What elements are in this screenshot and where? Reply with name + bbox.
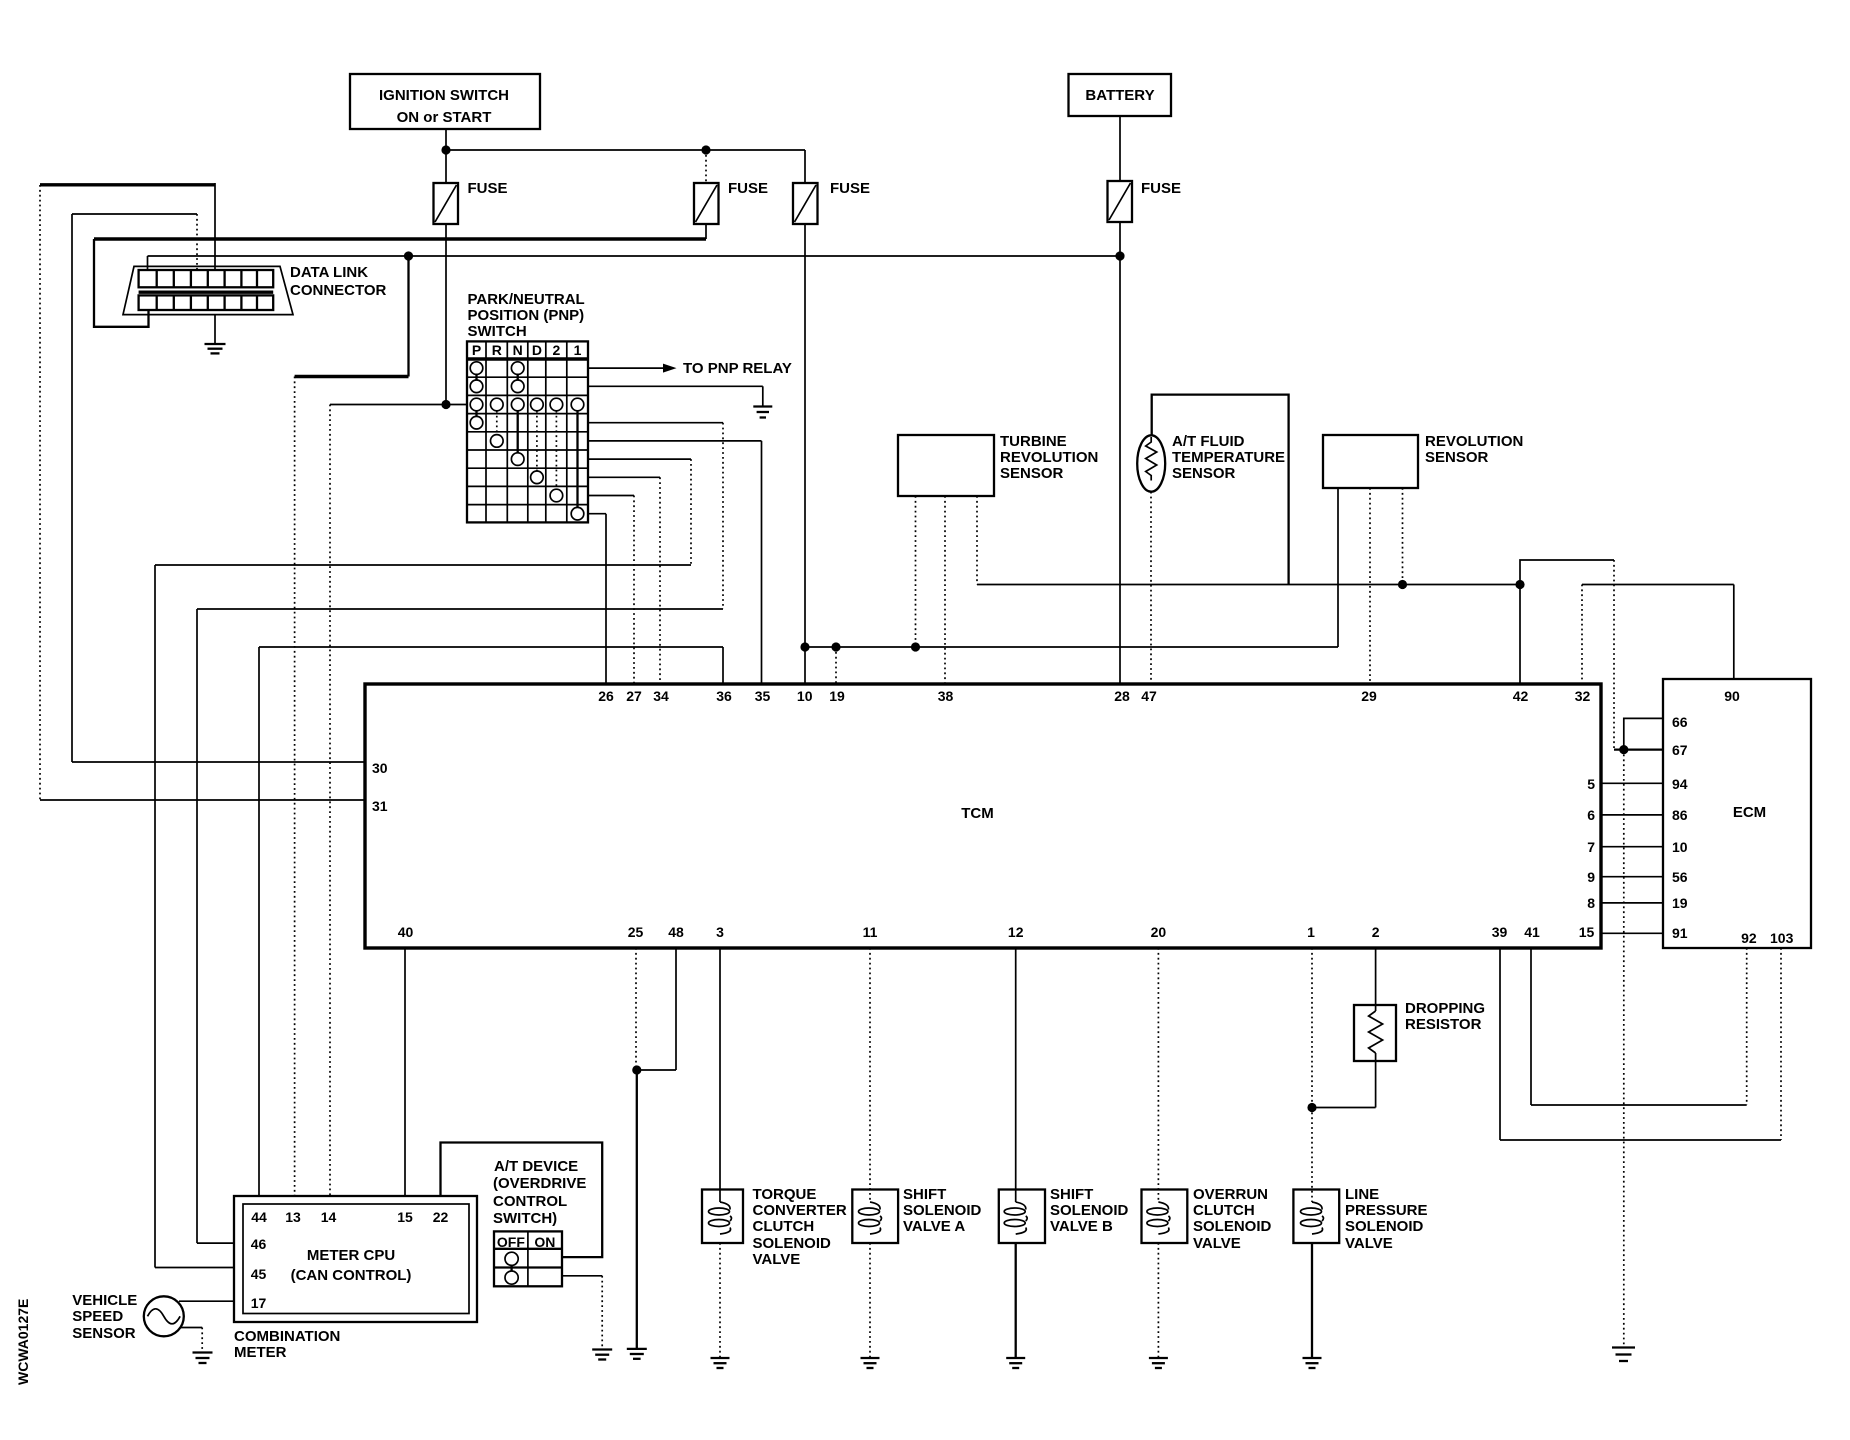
A/T device overdrive control switch label <box>493 1158 586 1227</box>
dropping resistor <box>1312 948 1485 1108</box>
wire line pressure solenoid to ground <box>1311 1243 1313 1358</box>
svg-text:13: 13 <box>285 1209 301 1225</box>
svg-text:DATA LINK: DATA LINK <box>290 264 368 281</box>
svg-text:WCWA0127E: WCWA0127E <box>15 1299 31 1385</box>
wire PNP row4 P to meter pin 46 <box>197 423 723 1243</box>
svg-text:CLUTCH: CLUTCH <box>1193 1202 1255 1219</box>
svg-text:SENSOR: SENSOR <box>1172 465 1236 482</box>
svg-text:25: 25 <box>628 924 644 940</box>
fuse F3 <box>793 180 870 224</box>
ECM pin labels <box>1672 688 1794 946</box>
svg-text:A/T FLUID: A/T FLUID <box>1172 433 1245 450</box>
svg-text:SOLENOID: SOLENOID <box>1193 1218 1272 1235</box>
svg-text:CLUTCH: CLUTCH <box>753 1218 815 1235</box>
turbine revolution sensor box <box>898 433 1098 496</box>
svg-text:9: 9 <box>1587 869 1595 885</box>
wire PNP row5 R to TCM pin 35 <box>588 441 762 684</box>
wire shift solenoid A to ground <box>869 1243 871 1358</box>
svg-text:VALVE: VALVE <box>1193 1235 1241 1252</box>
svg-text:3: 3 <box>716 924 724 940</box>
ignition switch box <box>350 74 540 129</box>
line pressure solenoid valve <box>1293 1186 1427 1252</box>
PNP contact circles and bars <box>470 362 584 520</box>
svg-text:67: 67 <box>1672 742 1688 758</box>
svg-text:56: 56 <box>1672 869 1688 885</box>
svg-text:REVOLUTION: REVOLUTION <box>1425 433 1523 450</box>
svg-text:FUSE: FUSE <box>728 180 768 197</box>
wire bus to fuse2 <box>705 150 707 183</box>
wire PNP row8 2 to TCM pin 27 <box>588 496 634 685</box>
svg-text:SOLENOID: SOLENOID <box>903 1202 982 1219</box>
wire fuse3 to TCM pin 10 <box>804 224 806 684</box>
wire TCM pin 48 joins pin 25 <box>636 948 676 1070</box>
svg-text:27: 27 <box>626 688 642 704</box>
wire bus to fuse1 <box>445 150 447 183</box>
svg-text:OFF: OFF <box>497 1234 525 1250</box>
wire speed sensor to ground <box>180 1328 202 1353</box>
svg-text:A/T DEVICE: A/T DEVICE <box>494 1158 578 1175</box>
svg-text:32: 32 <box>1575 688 1591 704</box>
wire battery to fuse4 <box>1119 116 1121 181</box>
wire TCM 15 to ECM 91 <box>1601 932 1663 934</box>
svg-text:PRESSURE: PRESSURE <box>1345 1202 1428 1219</box>
svg-text:SHIFT: SHIFT <box>903 1186 946 1203</box>
wire TCM 6 to ECM 86 <box>1601 814 1663 816</box>
battery box <box>1069 74 1172 116</box>
svg-text:31: 31 <box>372 798 388 814</box>
svg-text:BATTERY: BATTERY <box>1085 87 1154 104</box>
svg-text:VALVE A: VALVE A <box>903 1218 965 1235</box>
wire DLC K-line thick top <box>40 183 215 270</box>
svg-text:POSITION (PNP): POSITION (PNP) <box>468 307 585 324</box>
svg-text:TORQUE: TORQUE <box>753 1186 817 1203</box>
ground A/T device <box>592 1350 612 1360</box>
svg-text:P: P <box>472 342 481 358</box>
svg-text:VALVE: VALVE <box>753 1251 801 1268</box>
wire top bus <box>446 149 805 151</box>
wire TCM pin 3 to torque solenoid <box>719 948 721 1202</box>
TCM top pin labels <box>598 688 1590 704</box>
svg-text:SENSOR: SENSOR <box>1000 465 1064 482</box>
svg-text:LINE: LINE <box>1345 1186 1379 1203</box>
wire PNP common feed <box>330 405 467 1197</box>
wire PNP row9 1 to TCM pin 26 <box>588 514 606 684</box>
park/neutral position switch label <box>468 291 585 340</box>
wire stub TCM pin 19 <box>835 647 837 684</box>
wire PNP row6 N to meter pin 45 <box>155 459 691 1267</box>
TCM right pin labels <box>1587 776 1595 911</box>
svg-text:39: 39 <box>1492 924 1508 940</box>
svg-text:CONTROL: CONTROL <box>493 1193 567 1210</box>
wire TCM 9 to ECM 56 <box>1601 876 1663 878</box>
svg-text:26: 26 <box>598 688 614 704</box>
svg-text:IGNITION SWITCH: IGNITION SWITCH <box>379 87 509 104</box>
svg-text:8: 8 <box>1587 895 1595 911</box>
overrun clutch solenoid valve <box>1142 1186 1272 1252</box>
wire TCM pin 41 to ECM 92 <box>1531 948 1747 1105</box>
svg-text:ON: ON <box>534 1234 555 1250</box>
wire fuse1 to PNP common <box>445 224 447 405</box>
node y584 branch <box>1515 580 1524 589</box>
wire y584 to TCM pin 42 <box>1519 585 1521 685</box>
wire TCM pin 39 to ECM 103 <box>1500 948 1781 1140</box>
node PNP feed fuse1 <box>441 400 450 409</box>
wire left bus to TCM pin 31 <box>40 185 365 800</box>
svg-text:45: 45 <box>251 1266 267 1282</box>
svg-text:47: 47 <box>1141 688 1157 704</box>
svg-text:2: 2 <box>1372 924 1380 940</box>
svg-text:86: 86 <box>1672 807 1688 823</box>
wire revolution pin1 to y647 <box>1337 488 1339 647</box>
node dropping resistor to pin 1 <box>1307 1103 1316 1112</box>
svg-text:6: 6 <box>1587 807 1595 823</box>
svg-text:N: N <box>513 342 523 358</box>
wire fuse4 to TCM pin 28 <box>1119 222 1121 684</box>
TCM bottom pin labels <box>398 924 1595 940</box>
ECM box <box>1663 679 1811 948</box>
svg-text:5: 5 <box>1587 776 1595 792</box>
svg-text:19: 19 <box>829 688 845 704</box>
svg-text:VALVE B: VALVE B <box>1050 1218 1113 1235</box>
fuse F2 <box>694 180 768 224</box>
svg-text:SENSOR: SENSOR <box>72 1325 136 1342</box>
svg-text:VALVE: VALVE <box>1345 1235 1393 1252</box>
ground shift solenoid A <box>861 1358 880 1368</box>
svg-text:D: D <box>532 342 542 358</box>
wire PNP row7 D to TCM pin 34 <box>588 477 660 684</box>
wire TCM pin 1 to line pressure solenoid <box>1311 948 1313 1202</box>
node pin 25-48 <box>632 1065 641 1074</box>
node turbine pin1 y647 <box>911 642 920 651</box>
svg-text:30: 30 <box>372 760 388 776</box>
wire turbine pin1 <box>915 496 917 647</box>
wire PNP row1 to PNP relay arrow <box>588 360 792 377</box>
svg-text:2: 2 <box>553 342 561 358</box>
node top bus fuse1 <box>441 145 450 154</box>
svg-text:12: 12 <box>1008 924 1024 940</box>
svg-text:PARK/NEUTRAL: PARK/NEUTRAL <box>468 291 585 308</box>
wire DLC line to battery bus y256 <box>148 256 1121 270</box>
svg-text:CONVERTER: CONVERTER <box>753 1202 847 1219</box>
vehicle speed sensor <box>72 1292 184 1342</box>
svg-text:22: 22 <box>433 1209 449 1225</box>
torque converter clutch solenoid valve <box>702 1186 847 1268</box>
wire left bus to TCM pin 30 <box>72 214 365 762</box>
ground torque solenoid <box>711 1358 730 1368</box>
wire revolution pin2 to TCM pin 29 <box>1369 488 1371 684</box>
svg-text:METER CPU: METER CPU <box>307 1247 395 1264</box>
TCM box <box>365 684 1601 948</box>
svg-text:ON or START: ON or START <box>397 109 492 126</box>
wire TCM pin 12 to shift solenoid B <box>1015 948 1017 1202</box>
wire DLC line2 <box>72 214 197 270</box>
svg-text:TURBINE: TURBINE <box>1000 433 1067 450</box>
svg-text:SOLENOID: SOLENOID <box>1345 1218 1424 1235</box>
svg-text:FUSE: FUSE <box>1141 180 1181 197</box>
svg-text:46: 46 <box>251 1236 267 1252</box>
ground ECM 67 line <box>1612 1348 1635 1362</box>
wire shift solenoid B to ground <box>1015 1243 1017 1358</box>
svg-text:TO PNP RELAY: TO PNP RELAY <box>683 360 792 377</box>
svg-text:17: 17 <box>251 1295 267 1311</box>
svg-text:SHIFT: SHIFT <box>1050 1186 1093 1203</box>
data link connector DLC <box>123 264 387 315</box>
wire turbine pin3 to y584 bus <box>976 496 978 585</box>
svg-text:103: 103 <box>1770 930 1794 946</box>
wire torque solenoid to ground <box>719 1243 721 1358</box>
wire fuse2 feed to DLC bottom pin <box>94 239 149 327</box>
svg-text:11: 11 <box>863 924 878 940</box>
svg-text:FUSE: FUSE <box>830 180 870 197</box>
ground PNP row2 <box>753 407 772 418</box>
wire branch to meter pin 13 <box>295 256 409 1196</box>
wire fuse2 down <box>705 224 707 239</box>
wire y584 step to ECM 67 <box>1520 560 1663 750</box>
svg-text:29: 29 <box>1361 688 1377 704</box>
wire bus to fuse3 <box>804 150 806 183</box>
svg-text:28: 28 <box>1114 688 1130 704</box>
node rev pin3 y584 <box>1398 580 1407 589</box>
shift solenoid valve A <box>852 1186 981 1243</box>
ground pin 25 <box>627 1349 647 1359</box>
wire meter pin 22 to A/T device <box>441 1143 603 1258</box>
svg-text:SPEED: SPEED <box>72 1308 123 1325</box>
svg-text:15: 15 <box>1579 924 1595 940</box>
node fuse3 y647 <box>800 642 809 651</box>
wire TCM 8 to ECM 19 <box>1601 902 1663 904</box>
svg-text:1: 1 <box>1307 924 1315 940</box>
wire TCM pin 32 to ECM 90 <box>1582 585 1734 685</box>
svg-text:34: 34 <box>653 688 669 704</box>
wire DLC ground stub <box>214 315 216 344</box>
wire TCM pin 25 to ground <box>635 948 638 1349</box>
svg-text:TEMPERATURE: TEMPERATURE <box>1172 449 1285 466</box>
svg-text:14: 14 <box>321 1209 337 1225</box>
svg-text:7: 7 <box>1587 839 1595 855</box>
ground vehicle speed sensor <box>193 1353 213 1364</box>
svg-text:VEHICLE: VEHICLE <box>72 1292 137 1309</box>
svg-text:19: 19 <box>1672 895 1688 911</box>
svg-text:1: 1 <box>574 342 582 358</box>
svg-text:SENSOR: SENSOR <box>1425 449 1489 466</box>
svg-text:COMBINATION: COMBINATION <box>234 1328 340 1345</box>
svg-text:41: 41 <box>1524 924 1540 940</box>
svg-text:35: 35 <box>755 688 771 704</box>
node top bus fuse2 <box>701 145 710 154</box>
wire shield bus y584 <box>977 584 1520 586</box>
svg-text:R: R <box>492 342 502 358</box>
node y256 branch <box>404 251 413 260</box>
wire fuse2 feed left thick <box>94 237 706 240</box>
ground shift solenoid B <box>1006 1358 1025 1368</box>
wire sensor common y647 <box>805 646 1338 648</box>
svg-text:94: 94 <box>1672 776 1688 792</box>
fuse F1 <box>434 180 508 224</box>
ground overrun solenoid <box>1149 1358 1168 1368</box>
svg-text:RESISTOR: RESISTOR <box>1405 1016 1482 1033</box>
node ECM 66-67 <box>1619 745 1628 754</box>
svg-text:20: 20 <box>1151 924 1167 940</box>
svg-text:SOLENOID: SOLENOID <box>753 1235 832 1252</box>
svg-text:91: 91 <box>1672 925 1688 941</box>
svg-text:44: 44 <box>251 1209 267 1225</box>
wire ignition switch to bus <box>445 129 447 150</box>
wire TCM pin 20 to overrun solenoid <box>1157 948 1159 1202</box>
svg-text:METER: METER <box>234 1344 287 1361</box>
node battery line y256 <box>1115 251 1124 260</box>
fuse F4 <box>1108 180 1182 222</box>
wire ECM 67 to ground <box>1623 750 1625 1348</box>
node pin19 y647 <box>831 642 840 651</box>
svg-text:36: 36 <box>716 688 732 704</box>
svg-text:SOLENOID: SOLENOID <box>1050 1202 1129 1219</box>
svg-text:REVOLUTION: REVOLUTION <box>1000 449 1098 466</box>
svg-text:15: 15 <box>397 1209 413 1225</box>
A/T device OFF-ON switch table <box>494 1231 562 1286</box>
svg-text:(OVERDRIVE: (OVERDRIVE <box>493 1175 586 1192</box>
combination meter label <box>234 1328 340 1361</box>
svg-text:SWITCH: SWITCH <box>468 323 527 340</box>
ground DLC <box>205 344 226 353</box>
svg-text:OVERRUN: OVERRUN <box>1193 1186 1268 1203</box>
svg-text:10: 10 <box>797 688 813 704</box>
wire ECM 66 jumper <box>1624 718 1663 749</box>
wire TCM pin 40 to meter pin 15 <box>404 948 406 1196</box>
meter CPU combination meter box <box>234 1196 477 1322</box>
svg-text:10: 10 <box>1672 839 1688 855</box>
wire turbine pin2 to TCM pin 38 <box>944 496 946 684</box>
shift solenoid valve B <box>999 1186 1129 1243</box>
svg-text:FUSE: FUSE <box>468 180 508 197</box>
wire TCM pin 36 to meter pin 44 <box>259 647 723 1196</box>
svg-text:40: 40 <box>398 924 414 940</box>
A/T fluid temperature sensor <box>1137 395 1288 585</box>
wire PNP row2 to ground <box>588 386 763 406</box>
wire TCM 5 to ECM 94 <box>1601 782 1663 784</box>
svg-text:38: 38 <box>938 688 954 704</box>
svg-text:SWITCH): SWITCH) <box>493 1210 557 1227</box>
wire speed sensor to meter pin 17 <box>179 1300 234 1302</box>
svg-text:CONNECTOR: CONNECTOR <box>290 282 387 299</box>
ground line pressure solenoid <box>1303 1358 1322 1368</box>
svg-text:42: 42 <box>1513 688 1529 704</box>
wire revolution pin3 to y584 bus <box>1402 488 1404 585</box>
svg-text:DROPPING: DROPPING <box>1405 1000 1485 1017</box>
svg-text:90: 90 <box>1724 688 1740 704</box>
svg-text:48: 48 <box>668 924 684 940</box>
svg-text:(CAN CONTROL): (CAN CONTROL) <box>291 1267 412 1284</box>
wire ATF sensor to TCM pin 47 <box>1150 492 1152 684</box>
wire overrun solenoid to ground <box>1157 1243 1159 1358</box>
revolution sensor box <box>1323 433 1523 488</box>
wire A/T device row3 to ground <box>562 1276 602 1350</box>
wire TCM pin 11 to shift solenoid A <box>869 948 871 1202</box>
svg-text:92: 92 <box>1741 930 1757 946</box>
svg-text:ECM: ECM <box>1733 804 1766 821</box>
svg-text:66: 66 <box>1672 714 1688 730</box>
svg-text:TCM: TCM <box>961 805 994 822</box>
PNP switch table <box>467 341 588 522</box>
wire TCM 7 to ECM 10 <box>1601 846 1663 848</box>
